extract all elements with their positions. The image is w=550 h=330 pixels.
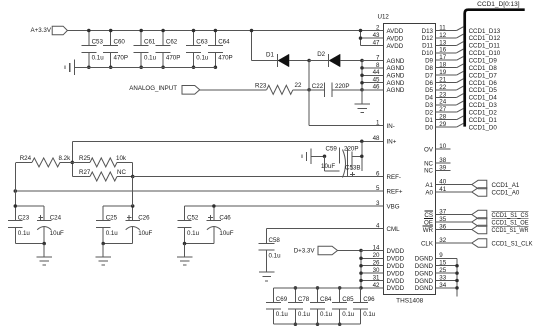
svg-text:DVDD: DVDD — [387, 248, 405, 255]
svg-text:470P: 470P — [114, 55, 128, 62]
svg-text:R27: R27 — [79, 169, 91, 176]
svg-text:D4: D4 — [425, 95, 433, 102]
svg-text:AGND: AGND — [387, 73, 405, 80]
svg-text:C78: C78 — [298, 296, 310, 303]
svg-text:REF-: REF- — [387, 174, 401, 181]
svg-text:10uF: 10uF — [321, 163, 335, 170]
svg-text:C58: C58 — [269, 237, 281, 244]
svg-text:DVDD: DVDD — [387, 278, 405, 285]
svg-text:C52: C52 — [187, 215, 199, 222]
svg-text:10uF: 10uF — [138, 230, 152, 237]
svg-text:D8: D8 — [425, 65, 433, 72]
svg-text:CCD1_D6: CCD1_D6 — [469, 80, 498, 87]
svg-text:CCD1_D12: CCD1_D12 — [469, 35, 501, 42]
svg-text:A1: A1 — [425, 182, 433, 189]
svg-text:CCD1_A1: CCD1_A1 — [492, 182, 520, 189]
svg-text:CCD1_D3: CCD1_D3 — [469, 102, 498, 109]
svg-text:C85: C85 — [342, 296, 354, 303]
svg-text:IN-: IN- — [387, 123, 395, 130]
svg-text:AVDD: AVDD — [387, 43, 404, 50]
svg-text:10uF: 10uF — [50, 230, 64, 237]
svg-text:CCD1_D9: CCD1_D9 — [469, 58, 498, 65]
svg-text:0.1u: 0.1u — [363, 311, 376, 318]
svg-text:0.1u: 0.1u — [269, 253, 282, 260]
svg-text:0.1u: 0.1u — [92, 55, 105, 62]
svg-text:D2: D2 — [425, 110, 433, 117]
svg-text:D12: D12 — [422, 35, 434, 42]
svg-text:CCD1_D5: CCD1_D5 — [469, 87, 498, 94]
svg-text:R24: R24 — [20, 155, 32, 162]
svg-text:DGND: DGND — [415, 285, 434, 292]
svg-text:VBG: VBG — [387, 203, 400, 210]
svg-text:C96: C96 — [363, 296, 375, 303]
svg-text:0.1u: 0.1u — [298, 311, 311, 318]
svg-text:0.1u: 0.1u — [320, 311, 333, 318]
svg-text:C60: C60 — [114, 39, 126, 46]
svg-text:220P: 220P — [344, 146, 358, 153]
svg-text:WR: WR — [423, 227, 434, 234]
svg-text:C26: C26 — [138, 215, 150, 222]
svg-text:CLK: CLK — [421, 240, 434, 247]
svg-text:C69: C69 — [276, 296, 288, 303]
svg-text:CCD1_D8: CCD1_D8 — [469, 65, 498, 72]
svg-text:NC: NC — [424, 160, 433, 167]
svg-text:CCD1_A0: CCD1_A0 — [492, 189, 520, 196]
svg-text:C64: C64 — [218, 39, 230, 46]
svg-text:D13: D13 — [422, 28, 434, 35]
svg-text:0.1u: 0.1u — [276, 311, 289, 318]
svg-text:CCD1_D0: CCD1_D0 — [469, 124, 498, 131]
svg-text:D0: D0 — [425, 124, 433, 131]
svg-text:220P: 220P — [335, 83, 349, 90]
svg-text:C59: C59 — [326, 146, 338, 153]
svg-text:CCD1_D2: CCD1_D2 — [469, 110, 498, 117]
svg-text:D9: D9 — [425, 58, 433, 65]
svg-text:DGND: DGND — [415, 256, 434, 263]
svg-text:CS: CS — [424, 212, 433, 219]
svg-text:D1: D1 — [425, 117, 433, 124]
svg-text:ANALOG_INPUT: ANALOG_INPUT — [129, 85, 177, 92]
svg-text:CCD1_S1_OE: CCD1_S1_OE — [492, 219, 529, 226]
svg-text:AGND: AGND — [387, 87, 405, 94]
svg-text:CCD1_S1_CS: CCD1_S1_CS — [492, 212, 529, 219]
svg-text:THS1408: THS1408 — [396, 298, 424, 305]
svg-text:DVDD: DVDD — [387, 256, 405, 263]
svg-text:CCD1_D10: CCD1_D10 — [469, 50, 501, 57]
svg-text:C46: C46 — [219, 215, 231, 222]
svg-text:10k: 10k — [116, 155, 127, 162]
svg-text:0.1u: 0.1u — [18, 230, 31, 237]
svg-text:OE: OE — [424, 219, 433, 226]
svg-text:CCD1_D7: CCD1_D7 — [469, 72, 498, 79]
svg-text:C22: C22 — [312, 83, 324, 90]
svg-text:CCD1_S1_CLK: CCD1_S1_CLK — [492, 240, 534, 247]
svg-text:D1: D1 — [266, 52, 274, 59]
svg-text:0.1u: 0.1u — [106, 230, 119, 237]
svg-text:NC: NC — [117, 169, 126, 176]
svg-text:CCD1_D[0:13]: CCD1_D[0:13] — [477, 1, 520, 8]
svg-text:D+3.3V: D+3.3V — [294, 247, 316, 254]
svg-text:AVDD: AVDD — [387, 28, 404, 35]
svg-text:C25: C25 — [106, 215, 118, 222]
svg-text:REF+: REF+ — [387, 188, 403, 195]
svg-text:AVDD: AVDD — [387, 35, 404, 42]
svg-text:C63: C63 — [196, 39, 208, 46]
svg-text:D2: D2 — [317, 51, 325, 58]
svg-text:R25: R25 — [79, 155, 91, 162]
svg-text:R23: R23 — [255, 82, 267, 89]
svg-text:C24: C24 — [50, 215, 62, 222]
svg-text:DVDD: DVDD — [387, 270, 405, 277]
svg-text:DVDD: DVDD — [387, 263, 405, 270]
svg-text:CCD1_D4: CCD1_D4 — [469, 95, 498, 102]
svg-text:D7: D7 — [425, 72, 433, 79]
svg-text:DGND: DGND — [415, 270, 434, 277]
svg-text:C84: C84 — [320, 296, 332, 303]
svg-text:DGND: DGND — [415, 278, 434, 285]
svg-text:IN+: IN+ — [387, 139, 397, 146]
svg-text:DVDD: DVDD — [387, 285, 405, 292]
svg-text:A+3.3V: A+3.3V — [31, 27, 52, 34]
svg-text:0.1u: 0.1u — [187, 230, 200, 237]
svg-text:CCD1_S1_WR: CCD1_S1_WR — [492, 227, 529, 234]
svg-text:0.1u: 0.1u — [144, 55, 157, 62]
svg-text:OV: OV — [424, 146, 434, 153]
svg-text:8.2k: 8.2k — [59, 155, 72, 162]
svg-text:NC: NC — [424, 168, 433, 175]
svg-text:CML: CML — [387, 226, 401, 233]
svg-text:DGND: DGND — [415, 263, 434, 270]
svg-text:470P: 470P — [166, 55, 180, 62]
svg-text:C61: C61 — [144, 39, 156, 46]
svg-text:U12: U12 — [378, 14, 390, 21]
svg-text:0.1u: 0.1u — [196, 55, 209, 62]
svg-text:470P: 470P — [218, 55, 232, 62]
svg-text:CCD1_D11: CCD1_D11 — [469, 43, 501, 50]
svg-text:D5: D5 — [425, 87, 433, 94]
svg-text:AGND: AGND — [387, 58, 405, 65]
svg-text:A0: A0 — [425, 189, 433, 196]
svg-text:C53: C53 — [92, 39, 104, 46]
svg-text:0.1u: 0.1u — [342, 311, 355, 318]
svg-text:D6: D6 — [425, 80, 433, 87]
svg-text:AGND: AGND — [387, 80, 405, 87]
svg-text:D11: D11 — [422, 43, 433, 50]
svg-text:C53B: C53B — [345, 165, 360, 172]
svg-text:10uF: 10uF — [219, 230, 233, 237]
svg-text:AGND: AGND — [387, 65, 405, 72]
svg-text:CCD1_D13: CCD1_D13 — [469, 28, 501, 35]
svg-text:C62: C62 — [166, 39, 178, 46]
svg-text:22: 22 — [295, 82, 302, 89]
svg-text:CCD1_D1: CCD1_D1 — [469, 117, 498, 124]
svg-text:C23: C23 — [18, 215, 30, 222]
svg-text:D3: D3 — [425, 102, 433, 109]
svg-text:D10: D10 — [422, 50, 434, 57]
